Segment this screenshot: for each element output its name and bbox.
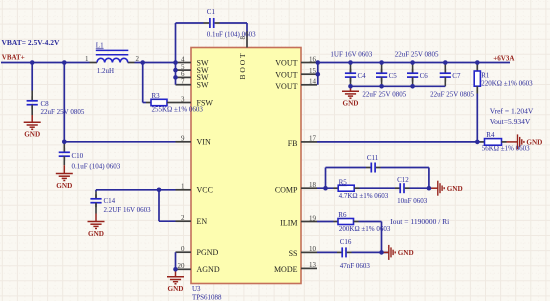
svg-text:AGND: AGND xyxy=(197,265,220,274)
svg-text:ILIM: ILIM xyxy=(280,219,297,228)
svg-text:TPS61088: TPS61088 xyxy=(192,293,222,301)
svg-text:18: 18 xyxy=(309,181,317,189)
svg-text:17: 17 xyxy=(309,135,317,143)
svg-text:Vref = 1.204V: Vref = 1.204V xyxy=(490,106,534,115)
svg-text:GND: GND xyxy=(24,131,40,139)
svg-text:R5: R5 xyxy=(339,178,348,186)
svg-text:VOUT: VOUT xyxy=(275,70,297,79)
svg-text:U3: U3 xyxy=(192,285,201,293)
svg-text:16: 16 xyxy=(309,55,317,63)
svg-text:47nF 0603: 47nF 0603 xyxy=(340,262,371,270)
svg-text:C12: C12 xyxy=(397,176,409,184)
svg-text:10: 10 xyxy=(309,245,317,253)
svg-text:R1: R1 xyxy=(481,72,490,80)
svg-text:56KΩ ±1% 0603: 56KΩ ±1% 0603 xyxy=(482,145,530,153)
svg-text:VOUT: VOUT xyxy=(275,58,297,67)
svg-text:SW: SW xyxy=(197,81,209,90)
svg-text:22uF 25V 0805: 22uF 25V 0805 xyxy=(430,91,474,99)
svg-text:0.1uF (104) 0603: 0.1uF (104) 0603 xyxy=(72,162,121,170)
svg-text:GND: GND xyxy=(168,285,184,293)
svg-text:GND: GND xyxy=(447,185,463,193)
svg-text:2.2UF 16V 0603: 2.2UF 16V 0603 xyxy=(104,206,152,214)
svg-text:1UF 16V 0603: 1UF 16V 0603 xyxy=(330,51,372,59)
svg-text:10nF 0603: 10nF 0603 xyxy=(397,197,428,205)
svg-text:15: 15 xyxy=(309,67,317,75)
svg-text:Vout=5.934V: Vout=5.934V xyxy=(490,117,531,126)
svg-text:C4: C4 xyxy=(358,72,367,80)
svg-text:2: 2 xyxy=(136,55,140,63)
svg-text:22uF 25V 0805: 22uF 25V 0805 xyxy=(41,108,85,116)
svg-text:VOUT: VOUT xyxy=(275,82,297,91)
svg-text:PGND: PGND xyxy=(197,248,219,257)
svg-text:3: 3 xyxy=(181,95,185,103)
svg-text:220KΩ ±1% 0603: 220KΩ ±1% 0603 xyxy=(481,80,533,88)
svg-text:4.7KΩ ±1% 0603: 4.7KΩ ±1% 0603 xyxy=(339,192,389,200)
svg-text:VBAT= 2.5V-4.2V: VBAT= 2.5V-4.2V xyxy=(2,38,61,47)
svg-text:C7: C7 xyxy=(452,72,461,80)
svg-text:BOOT: BOOT xyxy=(238,51,247,79)
svg-text:C14: C14 xyxy=(104,197,116,205)
svg-text:GND: GND xyxy=(343,100,359,108)
svg-text:R6: R6 xyxy=(338,211,347,219)
svg-text:C11: C11 xyxy=(367,154,379,162)
svg-text:+6V3A: +6V3A xyxy=(493,55,514,63)
svg-text:Iout = 1190000 / Ri: Iout = 1190000 / Ri xyxy=(390,217,449,226)
svg-text:GND: GND xyxy=(56,182,72,190)
svg-text:VBAT+: VBAT+ xyxy=(2,54,25,62)
svg-text:1: 1 xyxy=(85,55,89,63)
svg-text:R3: R3 xyxy=(152,92,161,100)
svg-text:MODE: MODE xyxy=(274,265,298,274)
svg-text:L1: L1 xyxy=(96,41,104,49)
svg-text:C16: C16 xyxy=(340,238,352,246)
svg-text:GND: GND xyxy=(88,230,104,238)
svg-text:VIN: VIN xyxy=(197,138,211,147)
svg-text:C8: C8 xyxy=(41,100,50,108)
svg-text:22uF 25V 0805: 22uF 25V 0805 xyxy=(362,91,406,99)
svg-text:SS: SS xyxy=(289,249,298,258)
svg-text:14: 14 xyxy=(309,78,317,86)
svg-text:1.2uH: 1.2uH xyxy=(97,67,114,75)
svg-text:7: 7 xyxy=(181,78,185,86)
svg-text:200KΩ ±1% 0603: 200KΩ ±1% 0603 xyxy=(339,225,391,233)
svg-text:C5: C5 xyxy=(389,72,398,80)
svg-text:13: 13 xyxy=(309,261,317,269)
svg-text:C6: C6 xyxy=(420,72,429,80)
svg-text:9: 9 xyxy=(181,135,185,143)
svg-text:C10: C10 xyxy=(72,152,84,160)
svg-text:20: 20 xyxy=(178,262,186,270)
svg-text:EN: EN xyxy=(197,217,208,226)
svg-text:22uF 25V 0805: 22uF 25V 0805 xyxy=(395,51,439,59)
svg-text:1: 1 xyxy=(181,183,185,191)
svg-text:2: 2 xyxy=(181,214,185,222)
svg-text:0: 0 xyxy=(181,245,185,253)
svg-text:COMP: COMP xyxy=(275,186,298,195)
svg-text:GND: GND xyxy=(398,249,414,257)
svg-text:255KΩ ±1% 0603: 255KΩ ±1% 0603 xyxy=(152,106,204,114)
svg-text:FB: FB xyxy=(288,139,298,148)
svg-text:0.1uF (104) 0603: 0.1uF (104) 0603 xyxy=(207,31,256,39)
svg-text:R4: R4 xyxy=(486,131,495,139)
svg-text:C1: C1 xyxy=(207,8,216,16)
svg-text:VCC: VCC xyxy=(197,186,213,195)
svg-text:19: 19 xyxy=(309,214,317,222)
